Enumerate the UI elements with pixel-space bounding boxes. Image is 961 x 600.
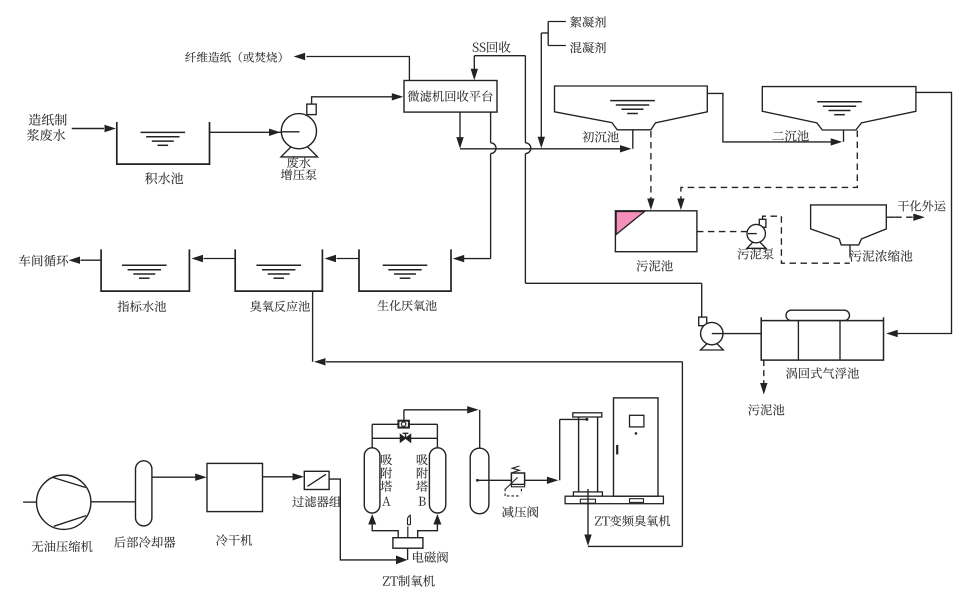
label: 污泥池 (flotation) [748, 404, 784, 415]
vessel: oxygen buffer tank [470, 448, 489, 514]
wire: tower risers [371, 424, 373, 448]
wire: filter to solenoid valve feed [329, 479, 396, 560]
valve: 电磁阀 solenoid valve block [393, 538, 423, 549]
label: SS回收 [473, 41, 511, 52]
vessel: adsorption tower A 吸附塔A [364, 448, 380, 513]
wire: coagulant feed bracket and drop line [548, 21, 566, 23]
box: 冷干机 refrigerated dryer [207, 463, 263, 511]
box: 微滤机回收平台 microfilter recovery platform [404, 81, 497, 113]
label: 吸附塔A [381, 454, 393, 505]
tank: 涡回式气浮池 vortex air flotation tank [786, 310, 850, 320]
wire: thickener outlet 干化外运 (dashed arrow) [886, 216, 895, 218]
wire: buffer tank outlet [476, 479, 479, 482]
wire: 生化厌氧池 to 臭氧反应池 [337, 258, 360, 260]
label: 初沉池 [582, 131, 619, 142]
label: 无油压缩机 [32, 541, 93, 552]
wire: ozone output down from tube [587, 489, 589, 536]
tank: 臭氧反应池 [235, 249, 322, 291]
label: ZT制氧机 [383, 575, 435, 586]
water surface symbol in 初沉池 [610, 100, 655, 102]
water surface symbol in 二沉池 [817, 101, 862, 103]
wire: upper interconnect line [372, 423, 398, 425]
wire: 二沉池 sludge (dashed) to 污泥池 [681, 131, 857, 200]
label: 冷干机 [216, 534, 252, 545]
label: 污泥浓缩池 [850, 250, 913, 262]
label: ZT变频臭氧机 [595, 515, 670, 526]
wire: 初沉池 bottom inlet pipe [632, 130, 634, 149]
wire: compressor to aftercooler [91, 501, 136, 503]
wire: raw wastewater inlet arrow [72, 128, 104, 130]
wire: 污泥池 to sludge pump (dashed) [697, 231, 748, 233]
wire: platform outlet (left drop) to main line [459, 112, 461, 137]
wire: sludge pump to 污泥浓缩池 (dashed) [763, 216, 850, 263]
tank: 污泥池 sludge pool [615, 211, 697, 252]
label: 指标水池 [118, 301, 166, 312]
tank: 污泥浓缩池 sludge thickener [811, 205, 887, 245]
wire: solenoid valve to tower B bottom [418, 525, 438, 538]
base: ozone generator skid platform [565, 496, 663, 504]
tank: 二沉池 secondary clarifier [762, 87, 916, 130]
wire: flotation sludge (dashed) to 污泥池 [763, 360, 765, 384]
label: 干化外运 [898, 200, 946, 211]
wire: 指标水池 to 车间循环 [81, 259, 102, 261]
wire: reduced-pressure oxygen to ozone tube [525, 479, 547, 481]
label: 过滤器组 [292, 496, 341, 507]
label: 车间循环 [19, 255, 68, 267]
cabinet: ozone generator control cabinet [614, 398, 659, 496]
vessel: adsorption tower B 吸附塔B [429, 448, 445, 513]
wire: 二沉池 bottom inlet pipe [843, 130, 845, 142]
label: 后部冷却器 [114, 536, 175, 548]
water surface symbol in 积水池 [141, 131, 186, 133]
label: 造纸制浆废水 line2 [27, 129, 65, 141]
pump P2 (flotation feed pump) [701, 339, 724, 350]
label: 微滤机回收平台 [408, 90, 493, 101]
water surface symbol in 生化厌氧池 [383, 264, 428, 266]
wire: platform outlet (right drop) to anaerobic tank [490, 112, 492, 143]
label: 纤维造纸（或焚烧） [185, 52, 281, 63]
wire: ozone feed into 臭氧反应池 bottom [312, 291, 314, 362]
pump P3 污泥泵 [747, 239, 766, 249]
label: 臭氧反应池 [250, 301, 310, 312]
tank: 生化厌氧池 [359, 249, 451, 291]
wire: aftercooler to dryer [152, 476, 196, 478]
wire: solenoid valve to tower A bottom [372, 525, 398, 538]
wire: dryer to filter group [263, 476, 293, 478]
wire: recovered fiber return to 纤维造纸 [307, 57, 410, 81]
wire: product oxygen to buffer tank [403, 410, 405, 421]
wire: lower interconnect line [372, 437, 400, 439]
valve: solenoid crossover (box with circle) [398, 421, 409, 428]
valve: solenoid exhaust muffler flag [407, 527, 409, 538]
label: 吸附塔B [416, 454, 428, 505]
label: 污泥泵 [738, 248, 774, 259]
label: 电磁阀 [413, 551, 448, 562]
compressor 无油压缩机 [23, 501, 36, 503]
label: 混凝剂 [570, 42, 606, 53]
tank: 指标水池 [101, 249, 189, 291]
label: 涡回式气浮池 [786, 367, 859, 378]
label: 减压阀 [502, 506, 538, 518]
label: 造纸制浆废水 line1 [29, 114, 67, 126]
label: 生化厌氧池 [378, 300, 437, 311]
label: 积水池 [145, 172, 183, 184]
wire: 初沉池 overflow to 二沉池 [707, 93, 831, 141]
wire: main junction line to 初沉池 inlet [460, 148, 620, 150]
wire: 初沉池 sludge (dashed) to 污泥池 [650, 131, 652, 199]
tank: collection basin 积水池 [117, 122, 210, 164]
vessel: 后部冷却器 aftercooler [136, 461, 152, 526]
wire: 二沉池 effluent to flotation tank (far right) [898, 92, 952, 333]
filter: 过滤器组 [304, 471, 329, 489]
water surface symbol in 指标水池 [122, 264, 167, 266]
tank: 初沉池 primary clarifier [555, 86, 708, 130]
valve: manual bowtie valve [400, 434, 405, 442]
vessel: ozone generator tube [573, 413, 602, 417]
wire: 臭氧反应池 to 指标水池 [204, 258, 236, 260]
wire: pump riser to recovery platform [312, 97, 392, 104]
label: 污泥池 [637, 260, 673, 271]
water surface symbol in 臭氧反应池 [256, 264, 301, 266]
pump P1 废水增压泵 [281, 139, 318, 157]
label: 絮凝剂 [570, 16, 606, 28]
label: 增压泵 [281, 169, 317, 180]
wire: 积水池 to booster pump [210, 131, 299, 133]
label: 二沉池 [773, 130, 809, 141]
valve: 减压阀 pressure reducing valve [512, 466, 519, 473]
label: 废水 [287, 157, 311, 168]
wire: SS回收 recycle line (from flotation pump up into platform) [471, 69, 478, 81]
